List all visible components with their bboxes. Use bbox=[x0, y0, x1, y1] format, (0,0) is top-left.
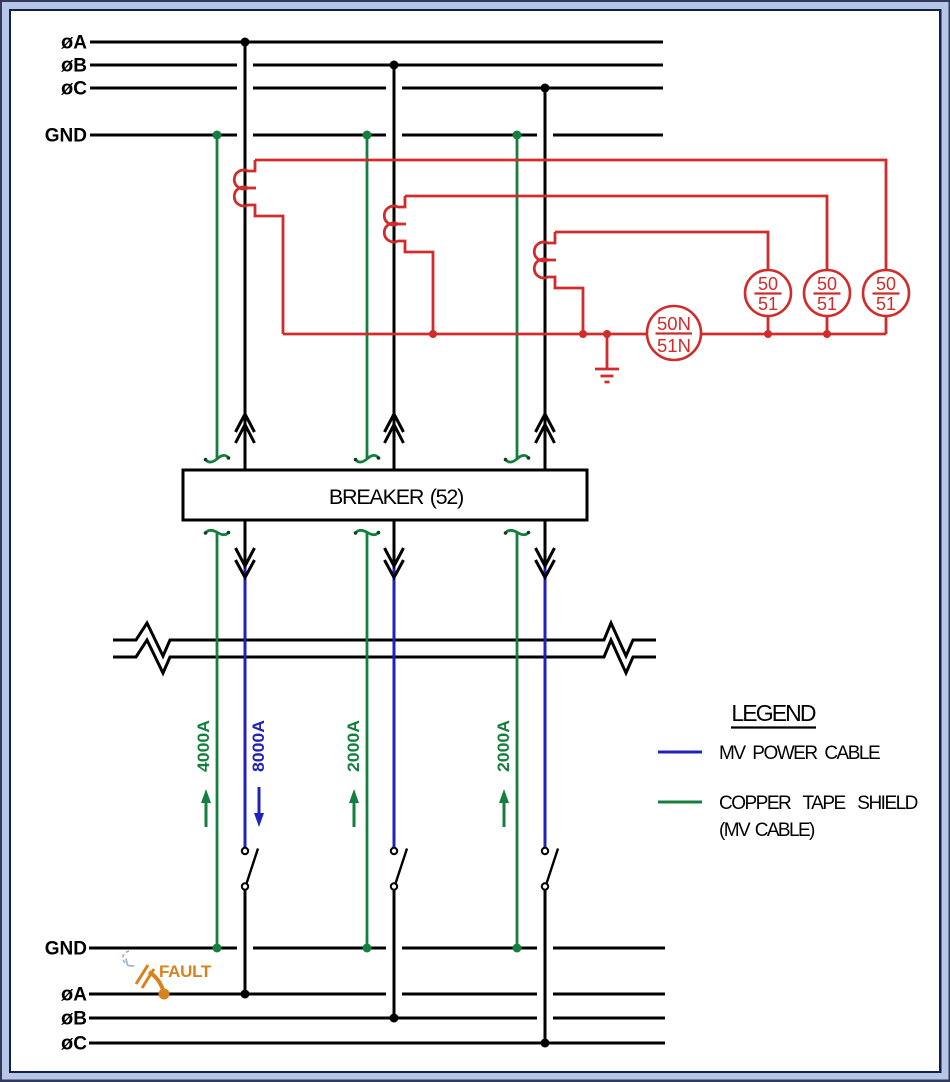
svg-text:50: 50 bbox=[817, 274, 837, 294]
svg-text:2000A: 2000A bbox=[344, 720, 363, 772]
svg-text:GND: GND bbox=[45, 939, 87, 960]
svg-text:8000A: 8000A bbox=[249, 720, 268, 772]
svg-text:MV POWER CABLE: MV POWER CABLE bbox=[719, 743, 880, 764]
svg-text:51: 51 bbox=[876, 294, 896, 314]
svg-text:50N: 50N bbox=[657, 313, 691, 334]
svg-text:COPPER TAPE SHIELD: COPPER TAPE SHIELD bbox=[719, 793, 918, 814]
svg-text:øB: øB bbox=[61, 55, 87, 77]
svg-text:LEGEND: LEGEND bbox=[731, 700, 815, 726]
svg-text:GND: GND bbox=[45, 126, 87, 147]
svg-text:FAULT: FAULT bbox=[159, 962, 212, 981]
svg-text:øA: øA bbox=[61, 32, 87, 54]
svg-text:4000A: 4000A bbox=[194, 720, 213, 772]
svg-text:øB: øB bbox=[61, 1008, 87, 1030]
svg-text:2000A: 2000A bbox=[494, 720, 513, 772]
svg-text:øC: øC bbox=[61, 78, 87, 100]
svg-text:51: 51 bbox=[817, 294, 837, 314]
svg-text:50: 50 bbox=[876, 274, 896, 294]
svg-text:51: 51 bbox=[758, 294, 778, 314]
svg-text:øA: øA bbox=[61, 984, 87, 1006]
svg-text:BREAKER (52): BREAKER (52) bbox=[329, 485, 463, 509]
svg-text:øC: øC bbox=[61, 1033, 87, 1055]
svg-text:(MV CABLE): (MV CABLE) bbox=[719, 820, 815, 841]
svg-text:51N: 51N bbox=[657, 335, 691, 356]
svg-text:50: 50 bbox=[758, 274, 778, 294]
